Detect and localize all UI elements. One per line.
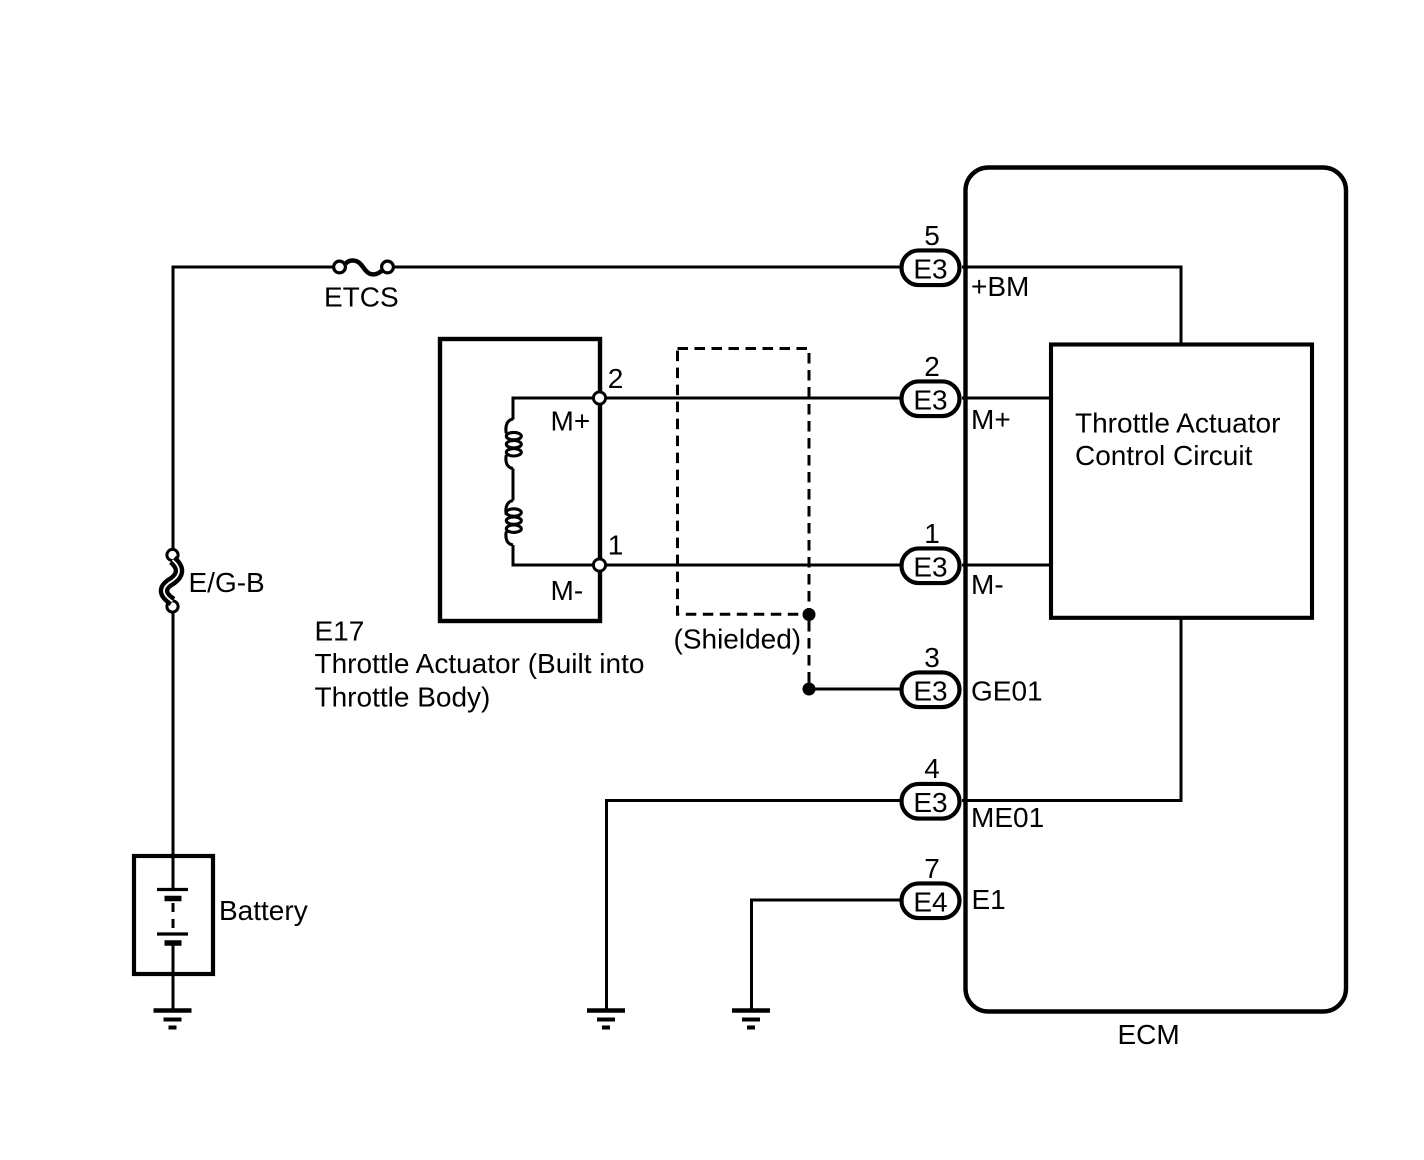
wire shield drain (dashed) <box>808 621 811 683</box>
connector E3 pin 5 <box>902 250 960 285</box>
svg-text:1: 1 <box>608 530 624 561</box>
svg-text:ECM: ECM <box>1118 1019 1180 1050</box>
svg-text:Control Circuit: Control Circuit <box>1075 440 1253 471</box>
svg-text:E1: E1 <box>972 884 1006 915</box>
svg-text:M+: M+ <box>551 406 591 437</box>
wire coil L1 to coil L2 <box>512 469 515 501</box>
wire +BM to control circuit (inside ECM) <box>962 267 1181 346</box>
wire fusible link to battery <box>172 613 175 857</box>
connector E3 pin 2 <box>902 381 960 416</box>
wire M- terminal 1 to ECM pin 1 <box>607 564 904 567</box>
svg-text:Battery: Battery <box>219 895 308 926</box>
terminal 2 circle <box>593 392 605 404</box>
svg-text:ME01: ME01 <box>971 802 1044 833</box>
wire terminal 2 to coil L1 <box>513 398 593 420</box>
svg-text:Throttle Body): Throttle Body) <box>315 682 491 713</box>
svg-text:E3: E3 <box>913 384 947 415</box>
throttle actuator E17 box <box>440 339 600 621</box>
svg-text:+BM: +BM <box>971 271 1029 302</box>
svg-text:GE01: GE01 <box>971 676 1043 707</box>
wire battery negative to ground <box>172 974 175 1010</box>
svg-text:1: 1 <box>924 518 940 549</box>
wire fuse to ECM pin 5 (+BM) <box>394 266 903 269</box>
svg-text:2: 2 <box>608 363 624 394</box>
connector E3 pin 4 <box>902 784 960 819</box>
wire shield drain to ECM pin 3 (GE01) <box>809 688 903 691</box>
svg-text:(Shielded): (Shielded) <box>674 624 802 655</box>
fusible link E/G-B <box>164 549 179 612</box>
svg-text:ETCS: ETCS <box>324 282 399 313</box>
shield box (Shielded) <box>678 349 810 615</box>
svg-text:E3: E3 <box>913 253 947 284</box>
svg-text:E17: E17 <box>315 616 365 647</box>
wire coil L2 to terminal 1 <box>513 545 593 565</box>
wire battery positive feed to fuse <box>173 267 333 549</box>
svg-text:E4: E4 <box>913 886 947 917</box>
svg-text:2: 2 <box>924 351 940 382</box>
node shield corner <box>803 608 816 621</box>
fuse ETCS <box>334 261 394 275</box>
svg-text:Throttle Actuator: Throttle Actuator <box>1075 408 1280 439</box>
wire M- inside ECM <box>962 564 1052 567</box>
svg-text:7: 7 <box>924 853 940 884</box>
ground E1 <box>732 1011 770 1028</box>
svg-text:M-: M- <box>551 575 584 606</box>
motor coil L2 <box>506 501 521 546</box>
svg-text:5: 5 <box>924 220 940 251</box>
wire E1 to ground run <box>752 900 904 1010</box>
wire ME01 to ground run <box>607 801 904 1011</box>
wire M+ terminal 2 to ECM pin 2 <box>607 397 904 400</box>
ground battery <box>154 1011 192 1028</box>
ground ME01 <box>587 1011 625 1028</box>
connector E4 pin 7 <box>902 883 960 918</box>
svg-text:E3: E3 <box>913 787 947 818</box>
svg-text:Throttle Actuator (Built into: Throttle Actuator (Built into <box>315 648 645 679</box>
svg-text:E3: E3 <box>913 675 947 706</box>
connector E3 pin 1 <box>902 548 960 583</box>
svg-text:M+: M+ <box>971 404 1011 435</box>
motor coil L1 <box>506 419 521 469</box>
ECM case <box>966 168 1347 1012</box>
throttle actuator control circuit block <box>1051 345 1312 618</box>
svg-text:M-: M- <box>971 569 1004 600</box>
svg-text:E3: E3 <box>913 551 947 582</box>
svg-text:E/G-B: E/G-B <box>189 567 265 598</box>
connector E3 pin 3 <box>902 672 960 707</box>
wire M+ inside ECM <box>962 397 1052 400</box>
node shield drain <box>803 683 816 696</box>
svg-text:4: 4 <box>924 753 940 784</box>
svg-text:3: 3 <box>924 642 940 673</box>
terminal 1 circle <box>593 559 605 571</box>
battery <box>134 856 213 974</box>
wire control circuit to ME01 (inside ECM) <box>962 616 1181 801</box>
